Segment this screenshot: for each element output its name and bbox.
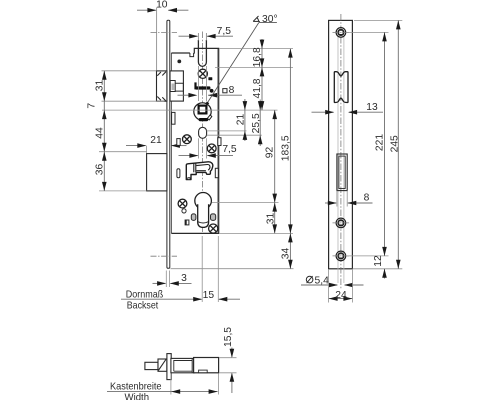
screw S2 xyxy=(183,135,192,144)
dim 3 xyxy=(153,282,166,284)
svg-text:245: 245 xyxy=(390,135,401,152)
svg-text:183,5: 183,5 xyxy=(281,135,292,161)
deadbolt xyxy=(147,154,167,191)
grey pin R xyxy=(211,214,216,221)
dim 13 xyxy=(312,111,334,113)
centerline bottom screw row xyxy=(151,255,178,257)
latch shaft xyxy=(145,362,158,369)
dim diameter 5,4 xyxy=(301,284,337,286)
svg-text:21: 21 xyxy=(150,135,162,146)
svg-text:41,8: 41,8 xyxy=(252,78,263,98)
wire: latch front extension line xyxy=(156,8,158,71)
svg-text:92: 92 xyxy=(265,147,276,159)
svg-text:24: 24 xyxy=(335,290,347,301)
ext lines bottom view xyxy=(170,373,172,394)
svg-text:13: 13 xyxy=(366,102,378,113)
oblong hole (capsule) xyxy=(199,127,207,138)
svg-text:221: 221 xyxy=(374,134,385,151)
svg-text:44: 44 xyxy=(94,127,105,139)
dim 10 (top) xyxy=(137,0,188,13)
grey pin L xyxy=(191,214,196,221)
svg-text:5,4: 5,4 xyxy=(315,276,330,287)
dim 8 (slot) xyxy=(325,202,336,204)
svg-text:Backset: Backset xyxy=(127,301,159,312)
label square 8 xyxy=(223,89,227,93)
screw S1 (top) xyxy=(198,69,207,78)
dim 15 + Dornmass line xyxy=(121,298,202,300)
screw hole H3 xyxy=(336,251,346,261)
small square detail xyxy=(185,220,189,225)
centerline top screw row xyxy=(151,31,178,33)
faceplate (edge-on) xyxy=(167,20,170,268)
case (bottom view) xyxy=(171,358,195,372)
svg-text:7,5: 7,5 xyxy=(222,144,237,155)
plate centerline xyxy=(340,14,342,290)
svg-text:3: 3 xyxy=(181,273,187,284)
plate outline xyxy=(329,20,353,268)
case back inner grey line xyxy=(217,49,219,233)
faceplate cross-section xyxy=(167,354,171,380)
latch tail block xyxy=(170,71,183,101)
dim 221 + 12 xyxy=(384,32,386,256)
small hole top-left of case xyxy=(177,60,181,64)
case outline xyxy=(171,48,218,233)
screw hole H2 xyxy=(336,218,346,228)
euro cylinder xyxy=(195,193,212,210)
follower (nut) xyxy=(194,103,211,120)
dim 92 / 31 xyxy=(274,110,276,233)
screw S4 xyxy=(178,199,187,208)
hook lever xyxy=(186,162,213,180)
screw hole H1 xyxy=(336,28,346,38)
svg-text:15: 15 xyxy=(203,290,215,301)
angle 30deg label xyxy=(253,16,260,21)
spring bracket (black) xyxy=(194,82,196,89)
svg-text:31: 31 xyxy=(95,80,106,92)
side tab A xyxy=(172,112,175,124)
dim square8 leader line xyxy=(178,93,243,98)
ext lines right view xyxy=(346,31,389,33)
pin left of hook xyxy=(177,169,180,178)
dim 21 (left horizontal) xyxy=(126,135,187,153)
capsule extension lines xyxy=(207,130,247,132)
svg-text:Width: Width xyxy=(125,392,150,400)
svg-text:10: 10 xyxy=(156,0,168,10)
dim 245 xyxy=(397,20,399,268)
dim 7,5 (middle) xyxy=(179,144,237,158)
leader 30deg diagonal xyxy=(205,23,259,107)
small hole xyxy=(182,209,186,213)
case front inner line xyxy=(170,53,172,233)
latch bevel xyxy=(158,359,167,371)
latch bolt (front, left of plate) xyxy=(157,71,167,101)
dim 16,8 / 41,8 xyxy=(261,39,263,110)
hole projection lines xyxy=(337,37,339,283)
latch cutout xyxy=(334,72,348,103)
svg-text:34: 34 xyxy=(281,248,292,260)
svg-text:16,8: 16,8 xyxy=(252,47,263,67)
dim 15,5 xyxy=(231,348,233,357)
svg-text:7,5: 7,5 xyxy=(217,26,232,37)
dim Kastenbreite / Width xyxy=(107,391,218,393)
svg-text:12: 12 xyxy=(373,255,384,267)
svg-text:8: 8 xyxy=(364,193,370,204)
dim 24 xyxy=(328,270,330,303)
svg-text:8: 8 xyxy=(229,85,235,96)
dim 21 (right) xyxy=(244,99,246,141)
screw S3 xyxy=(207,144,216,153)
svg-text:Kastenbreite: Kastenbreite xyxy=(110,381,162,392)
svg-text:21: 21 xyxy=(236,114,247,126)
front tab B xyxy=(177,139,180,146)
latch plunger xyxy=(170,81,175,92)
cylinder slot xyxy=(337,154,347,191)
svg-text:7: 7 xyxy=(86,103,97,109)
back tab B xyxy=(218,138,221,146)
dim 7,5 (top) xyxy=(179,26,234,38)
dim 183,5 / 34 xyxy=(289,49,291,269)
vertical centerline of lock xyxy=(202,32,204,233)
svg-text:15,5: 15,5 xyxy=(223,327,234,347)
dim 25,5 xyxy=(259,100,261,147)
screw S5 xyxy=(209,224,218,233)
pin right of hook xyxy=(215,168,218,177)
svg-text:31: 31 xyxy=(265,213,276,225)
svg-text:36: 36 xyxy=(94,164,105,176)
svg-text:Dornmaß: Dornmaß xyxy=(126,289,164,300)
ext lines xyxy=(219,48,293,50)
svg-text:30°: 30° xyxy=(262,14,278,25)
svg-text:25,5: 25,5 xyxy=(251,113,262,133)
black stop square xyxy=(208,77,212,80)
spring legs xyxy=(197,66,199,101)
spring slot (U tube) xyxy=(198,40,206,66)
